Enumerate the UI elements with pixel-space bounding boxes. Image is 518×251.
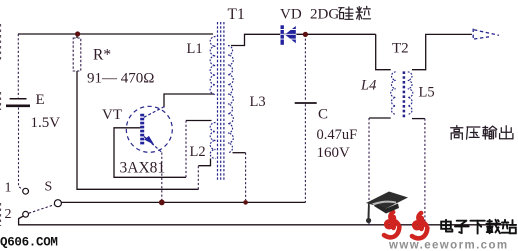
watermark hanzi xia xyxy=(470,221,484,234)
svg-text:2: 2 xyxy=(5,207,12,222)
wire L5 top to output xyxy=(412,34,472,69)
switch pivot circle xyxy=(54,200,61,207)
label hanzi gui (silicon) xyxy=(339,7,353,19)
transformer T1 core xyxy=(218,22,224,180)
watermark hanzi zi xyxy=(455,221,469,233)
svg-text:R*: R* xyxy=(93,47,111,64)
watermark hanzi zhan xyxy=(502,220,516,234)
transistor VT base bar xyxy=(140,114,144,145)
svg-text:2DG: 2DG xyxy=(310,7,339,23)
watermark logo chong 2 xyxy=(412,213,427,238)
node diode/capacitor junction xyxy=(303,32,308,37)
transformer T1 winding L1 xyxy=(210,37,215,95)
watermark hanzi dian xyxy=(441,220,452,232)
transistor VT circle xyxy=(126,106,172,152)
svg-text:0.47uF: 0.47uF xyxy=(317,127,358,143)
wire base path around 3AX81 to L2 top xyxy=(114,128,186,178)
wire L2 top lead xyxy=(186,120,212,122)
watermark graduation cap xyxy=(366,192,408,224)
switch arm (dashed) xyxy=(29,205,54,214)
label hanzi shu (out-) xyxy=(483,126,497,139)
wire bottom rail (switch 2 to right edge) xyxy=(19,218,514,225)
svg-text:www.eeworm.com: www.eeworm.com xyxy=(388,240,509,251)
wire L2 bottom riser (dashed) xyxy=(197,166,199,190)
watermark hanzi zai xyxy=(487,220,501,234)
wire L4 bottom riser xyxy=(368,118,370,225)
diode VD stripe gaps xyxy=(280,30,297,40)
transformer T2 winding L4 xyxy=(391,72,396,115)
wire collector riser xyxy=(161,153,163,201)
svg-text:S: S xyxy=(45,180,53,195)
node L3/ground rail junction xyxy=(243,200,248,205)
output electrode bar xyxy=(472,29,474,40)
wire L5 bottom riser xyxy=(424,119,426,225)
svg-text:E: E xyxy=(36,92,45,108)
wire L3 top step to diode rail xyxy=(231,34,376,45)
transformer T1 winding L2 xyxy=(210,123,215,159)
capacitor C plate xyxy=(295,102,317,104)
switch terminal 2 circle xyxy=(23,211,29,217)
node battery/R* junction xyxy=(75,31,80,36)
decorative left edge marks xyxy=(0,24,2,226)
output electrode upper line xyxy=(474,30,499,36)
svg-text:1: 1 xyxy=(5,181,12,196)
wire L4 bottom lead xyxy=(369,117,391,119)
svg-text:T2: T2 xyxy=(392,41,409,57)
svg-text:3AX81: 3AX81 xyxy=(120,159,166,176)
label hanzi ya (voltage) xyxy=(467,127,480,139)
transistor VT collector diagonal (to top) xyxy=(144,107,164,118)
svg-text:91— 470Ω: 91— 470Ω xyxy=(87,71,154,87)
wire top rail left (battery + to L1 top) xyxy=(18,33,213,35)
svg-text:T1: T1 xyxy=(228,6,245,23)
transistor VT emitter diagonal (to bottom) xyxy=(144,137,162,153)
wire R* top lead xyxy=(76,34,78,38)
transformer T2 winding L5 xyxy=(408,72,413,115)
watermark logo chong 1 xyxy=(384,212,399,237)
wire switch terminal 2 hook xyxy=(19,216,23,218)
wire L5 bottom lead xyxy=(412,118,425,120)
transformer T1 winding L3 xyxy=(228,46,233,153)
wire L3 bottom step xyxy=(233,152,246,154)
wire 3AX81 box right edge (dashed) xyxy=(185,121,187,178)
wire R* bottom to L2 riser rail xyxy=(77,71,199,189)
diode VD cathode bar xyxy=(281,25,284,45)
wire battery top lead xyxy=(17,34,19,98)
label hanzi chu (-put) xyxy=(500,126,513,139)
output electrode lower line xyxy=(474,37,489,39)
wire L2 bottom step xyxy=(198,159,210,166)
label hanzi gao (high) xyxy=(451,126,463,140)
svg-text:L1: L1 xyxy=(187,41,203,57)
svg-text:L2: L2 xyxy=(190,144,206,160)
wire ground rail (switch pivot to capacitor) xyxy=(61,201,305,203)
svg-text:1.5V: 1.5V xyxy=(31,115,61,131)
wire L3 bottom riser xyxy=(245,153,247,200)
wire capacitor top lead xyxy=(304,34,306,101)
svg-text:Q606.COM: Q606.COM xyxy=(0,236,58,250)
diode VD triangle xyxy=(285,26,296,43)
transistor VT emitter arrow xyxy=(144,136,154,145)
battery E plates xyxy=(6,99,30,106)
svg-text:160V: 160V xyxy=(317,145,351,161)
switch terminal 1 circle xyxy=(23,188,29,194)
wire battery bottom lead to switch terminal 1 xyxy=(19,108,23,190)
wire capacitor bottom lead xyxy=(304,104,306,202)
svg-text:L3: L3 xyxy=(250,94,266,110)
svg-text:VD: VD xyxy=(280,7,302,23)
svg-text:L5: L5 xyxy=(419,85,435,101)
svg-text:L4: L4 xyxy=(360,78,376,94)
resistor R* body xyxy=(73,38,81,71)
node collector/ground rail junction xyxy=(159,200,165,206)
svg-text:VT: VT xyxy=(102,107,122,123)
wire T2 L4 top lead xyxy=(376,34,391,69)
transformer T2 core xyxy=(403,71,406,119)
wire emitter riser to L1 bottom xyxy=(164,94,214,108)
svg-text:C: C xyxy=(318,106,328,122)
label hanzi li (grain) xyxy=(356,6,370,19)
